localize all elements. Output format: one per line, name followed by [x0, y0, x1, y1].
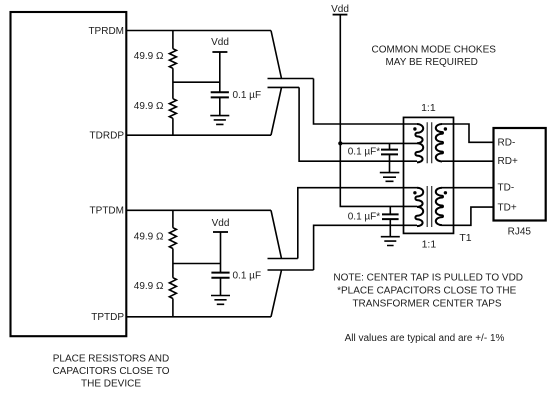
capacitor C4 0.1 uF* (lower center tap): [382, 206, 399, 236]
svg-text:Vdd: Vdd: [331, 4, 349, 15]
svg-text:TD-: TD-: [498, 182, 515, 193]
svg-text:TPTDP: TPTDP: [91, 312, 124, 323]
svg-text:NOTE: CENTER TAP IS PULLED TO: NOTE: CENTER TAP IS PULLED TO VDD: [333, 273, 523, 284]
lower primary winding: [415, 188, 423, 226]
wire upper M to transformer top: [314, 79, 418, 125]
upper primary winding: [415, 124, 423, 162]
svg-text:THE DEVICE: THE DEVICE: [81, 379, 141, 390]
svg-text:RJ45: RJ45: [508, 226, 532, 237]
svg-text:0.1 µF*: 0.1 µF*: [348, 147, 381, 158]
svg-text:TRANSFORMER CENTER TAPS: TRANSFORMER CENTER TAPS: [352, 299, 501, 310]
wire Vdd bar to C1: [219, 52, 221, 92]
note: common mode chokes: [371, 44, 496, 68]
wire RD+: [454, 160, 494, 162]
svg-text:MAY BE REQUIRED: MAY BE REQUIRED: [385, 57, 477, 68]
note: center tap: [333, 273, 523, 310]
resistor R4 49.9 ohm: [169, 249, 176, 317]
wire C2 to ground: [220, 278, 222, 296]
svg-text:PLACE RESISTORS AND: PLACE RESISTORS AND: [53, 354, 170, 365]
upper secondary winding: [436, 124, 443, 161]
upper core: [427, 122, 432, 163]
svg-text:TPRDM: TPRDM: [88, 26, 124, 37]
wire Vdd rail to center taps: [340, 15, 417, 207]
svg-text:TPTDM: TPTDM: [90, 206, 124, 217]
ground (lower RC): [211, 296, 230, 305]
twisted-pair taper lower (diagonals + stubs): [268, 210, 314, 316]
svg-text:49.9 Ω: 49.9 Ω: [134, 281, 164, 292]
svg-text:*PLACE CAPACITORS CLOSE TO THE: *PLACE CAPACITORS CLOSE TO THE: [337, 286, 516, 297]
wire TPRDM: [126, 30, 271, 32]
svg-text:T1: T1: [459, 232, 471, 244]
capacitor C3 0.1 uF* (upper center tap): [381, 143, 398, 172]
svg-text:0.1 µF: 0.1 µF: [233, 271, 262, 282]
capacitor C1 0.1 uF: [211, 92, 229, 97]
svg-text:49.9 Ω: 49.9 Ω: [134, 232, 164, 243]
lower secondary phase dot: [444, 191, 447, 194]
svg-text:CAPACITORS CLOSE TO: CAPACITORS CLOSE TO: [52, 366, 169, 377]
svg-text:49.9 Ω: 49.9 Ω: [134, 51, 164, 62]
resistor R3 49.9 ohm: [169, 210, 176, 248]
resistor R1 49.9 ohm: [169, 31, 176, 99]
svg-text:COMMON MODE CHOKES: COMMON MODE CHOKES: [371, 44, 496, 55]
ground (upper RC): [210, 116, 229, 125]
upper primary phase dot: [413, 127, 416, 130]
wire TPTDP: [126, 316, 271, 318]
lower primary phase dot: [413, 191, 416, 194]
wire R3/R4 junction to C2: [173, 263, 221, 265]
wire TPTDM: [126, 209, 271, 211]
svg-text:TD+: TD+: [498, 203, 517, 214]
wire upper P to transformer bottom: [299, 87, 417, 161]
wire Vdd bar to C2: [220, 232, 222, 273]
lower secondary terminals: [442, 188, 454, 226]
power Vdd (upper RC): [211, 37, 229, 52]
connector RJ45 box: [494, 128, 546, 221]
transformer T1 outline box: [404, 117, 454, 233]
upper secondary phase dot: [444, 127, 447, 130]
svg-text:RD-: RD-: [498, 138, 516, 149]
lower secondary winding: [436, 188, 443, 225]
capacitor C2 0.1 uF: [211, 273, 229, 278]
svg-text:1:1: 1:1: [422, 238, 437, 250]
ground (C3): [380, 173, 400, 182]
svg-text:0.1 µF: 0.1 µF: [233, 90, 262, 101]
ground (C4): [381, 237, 400, 246]
svg-text:1:1: 1:1: [421, 102, 436, 114]
upper secondary terminals: [442, 124, 454, 161]
wire lower P to transformer bottom: [314, 225, 417, 270]
svg-text:49.9 Ω: 49.9 Ω: [134, 101, 164, 112]
wire C1 to ground: [219, 97, 221, 115]
device IC box: [11, 12, 127, 336]
junction dot Vdd/upper center tap: [338, 141, 342, 145]
twisted-pair taper upper (diagonals + stubs): [268, 31, 314, 136]
wire RD-: [454, 124, 494, 142]
svg-text:Vdd: Vdd: [212, 218, 230, 229]
wire R1/R2 junction to C1: [173, 81, 220, 83]
wire TDRDP: [126, 134, 271, 136]
wire lower M to transformer top: [298, 188, 417, 259]
svg-text:All values are typical and are: All values are typical and are +/- 1%: [345, 333, 505, 344]
lower core: [427, 186, 432, 227]
wire TD-: [454, 187, 494, 189]
svg-text:Vdd: Vdd: [211, 37, 229, 48]
resistor R2 49.9 ohm: [169, 99, 176, 136]
svg-text:0.1 µF*: 0.1 µF*: [348, 211, 381, 222]
power Vdd (top rail): [331, 4, 349, 15]
svg-text:TDRDP: TDRDP: [90, 131, 125, 142]
wire upper center tap: [340, 142, 417, 144]
power Vdd (lower RC): [212, 218, 230, 232]
wire TD+: [454, 207, 494, 225]
caption: place resistors and capacitors close to the device: [52, 354, 169, 390]
svg-text:RD+: RD+: [498, 156, 518, 167]
